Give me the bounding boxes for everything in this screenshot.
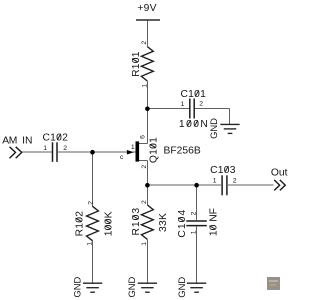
svg-text:C101: C101 xyxy=(181,89,207,100)
svg-text:2: 2 xyxy=(141,41,148,45)
svg-text:2: 2 xyxy=(141,165,148,169)
svg-text:R102: R102 xyxy=(74,211,85,237)
svg-text:Q101: Q101 xyxy=(149,137,160,163)
svg-text:2: 2 xyxy=(141,200,148,204)
svg-text:+9V: +9V xyxy=(137,3,156,14)
svg-text:2: 2 xyxy=(87,201,94,205)
svg-text:100K: 100K xyxy=(104,211,115,236)
svg-text:GND: GND xyxy=(208,118,219,139)
svg-text:GND: GND xyxy=(126,276,137,297)
svg-text:1: 1 xyxy=(87,242,94,246)
svg-text:2: 2 xyxy=(190,211,197,215)
svg-text:C103: C103 xyxy=(210,165,236,176)
svg-text:6: 6 xyxy=(140,135,147,139)
svg-text:C104: C104 xyxy=(177,209,188,238)
svg-text:R103: R103 xyxy=(131,207,142,236)
svg-text:1: 1 xyxy=(181,101,185,108)
svg-text:100N: 100N xyxy=(179,119,209,130)
svg-text:GND: GND xyxy=(72,276,83,297)
svg-text:BF256B: BF256B xyxy=(164,146,201,157)
svg-text:IN: IN xyxy=(22,136,32,147)
svg-text:GND: GND xyxy=(176,277,187,298)
svg-text:c: c xyxy=(120,154,124,161)
svg-text:2: 2 xyxy=(63,145,67,152)
svg-text:1: 1 xyxy=(131,144,135,151)
svg-text:2: 2 xyxy=(199,101,203,108)
svg-text:1: 1 xyxy=(141,242,148,246)
svg-text:33K: 33K xyxy=(158,213,169,232)
svg-text:R101: R101 xyxy=(131,51,142,77)
svg-text:10 NF: 10 NF xyxy=(208,208,219,236)
svg-text:1: 1 xyxy=(43,145,47,152)
svg-text:1: 1 xyxy=(141,84,148,88)
svg-text:C102: C102 xyxy=(43,133,69,144)
svg-text:2: 2 xyxy=(233,178,237,185)
svg-text:1: 1 xyxy=(191,230,198,234)
svg-text:AM: AM xyxy=(2,136,17,147)
svg-text:Out: Out xyxy=(271,168,288,179)
svg-text:1: 1 xyxy=(213,178,217,185)
